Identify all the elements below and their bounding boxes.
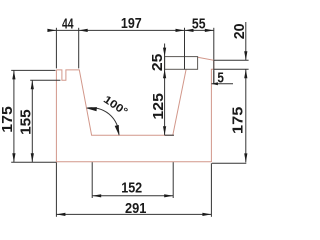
svg-text:20: 20 <box>231 24 248 40</box>
svg-text:25: 25 <box>149 54 166 72</box>
svg-text:175: 175 <box>0 106 16 133</box>
svg-text:152: 152 <box>121 179 142 196</box>
svg-text:291: 291 <box>125 200 146 217</box>
svg-text:175: 175 <box>230 107 247 134</box>
svg-text:155: 155 <box>18 109 35 135</box>
svg-text:197: 197 <box>121 15 142 32</box>
svg-text:125: 125 <box>150 93 167 120</box>
svg-text:5: 5 <box>217 70 224 87</box>
svg-text:55: 55 <box>192 15 206 32</box>
svg-text:44: 44 <box>62 15 74 32</box>
